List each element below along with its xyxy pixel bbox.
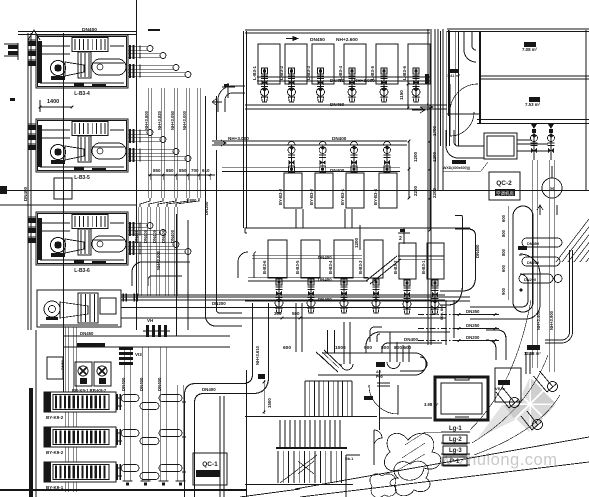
svg-text:L-B3-5: L-B3-5: [74, 175, 90, 181]
svg-text:DN450: DN450: [330, 78, 345, 83]
arrow right end of discharge pipe: [420, 104, 433, 110]
svg-text:L-B3-6: L-B3-6: [402, 66, 407, 80]
duct elbow to third row: [206, 310, 243, 326]
svg-text:DN200: DN200: [524, 277, 536, 282]
stair bottom line: [245, 484, 353, 486]
svg-text:NH+3.800: NH+3.800: [144, 110, 149, 130]
section line across plan: [0, 190, 589, 192]
svg-text:BY-K9-2: BY-K9-2: [46, 415, 64, 420]
chiller unit L-B3-5: [36, 119, 128, 172]
svg-text:600, 800: 600, 800: [439, 304, 444, 320]
section marker 2: [403, 228, 405, 244]
pump row enclosure right wall: [427, 29, 429, 345]
svg-text:800: 800: [501, 248, 506, 256]
duct damper dot: [258, 374, 265, 379]
wall to elevator: [379, 417, 432, 419]
outer dim col 1700 1200 2200: [429, 108, 431, 230]
pump BY-B3-3: [291, 145, 293, 173]
duct elbow turn left: [243, 374, 269, 394]
pump BY-B3-4: [386, 145, 388, 173]
right boundary diagonal hatch: [563, 232, 589, 259]
svg-text:NH+3.000: NH+3.000: [354, 78, 375, 83]
pump L-B3-6: [415, 68, 417, 102]
pump B-B3-4: [343, 279, 345, 313]
pump bay B-B3-5: [301, 240, 320, 278]
svg-text:DN450: DN450: [310, 37, 325, 43]
pump BY-B3-2: [322, 145, 324, 173]
pump row inlet elbow: [232, 86, 245, 93]
riser lower vertical pipes DN400: [138, 207, 140, 296]
svg-text:DN400: DN400: [330, 168, 345, 173]
chiller unit L-B3-6: [36, 212, 128, 265]
pump L-B3-5: [383, 68, 385, 102]
pipe pair left of stairs: [219, 396, 221, 497]
riser group top center x290-330: [295, 0, 297, 1]
plant bush lower-left: [384, 433, 440, 480]
room 7.53: [529, 97, 540, 102]
duct branch left at y268: [132, 262, 190, 286]
section line end mark: [0, 186, 7, 194]
diagonal bell stub right 3: [521, 411, 541, 430]
svg-text:1200: 1200: [354, 237, 359, 248]
VI3 valve cluster: [119, 347, 133, 350]
connector pipes right bottom: [446, 300, 454, 345]
pump row header pipe DN450 NH+2.600: [245, 29, 430, 31]
svg-text:DN400: DN400: [134, 229, 139, 243]
door S-arc lower: [374, 430, 382, 446]
svg-text:DN400: DN400: [170, 229, 175, 243]
elevator shaft walls: [435, 377, 488, 420]
svg-text:L-B3-6: L-B3-6: [74, 268, 90, 274]
AHU BY-K9-1 connection capsule pipes: [116, 467, 122, 469]
right dim line ticks: [408, 141, 410, 198]
bell mouth stub 1: [296, 303, 302, 352]
pump RB-K9-1: [75, 362, 92, 386]
svg-text:DN450: DN450: [80, 331, 94, 336]
vertical capsule pipe large: [513, 206, 533, 312]
connector pipes second row to third row: [295, 209, 297, 228]
inter-chiller connector box: [54, 178, 72, 199]
dim marks right pipes: [458, 313, 461, 316]
svg-text:DN200: DN200: [212, 301, 226, 306]
svg-text:Lg-2: Lg-2: [449, 437, 462, 443]
chiller 1 stub pipes to risers: [128, 46, 148, 48]
pipe after jog horizontal: [398, 255, 444, 257]
svg-text:DN400: DN400: [202, 387, 216, 392]
right bottom duct loop: [470, 254, 540, 319]
diagonal bell stub right 1: [534, 371, 557, 392]
horizontal capsule DN450: [522, 238, 562, 247]
pipe DN200 right: [418, 340, 455, 342]
pump bay BY-B3-3: [284, 173, 302, 208]
AHU riser end feet: [123, 480, 133, 482]
svg-text:Lg-1: Lg-1: [449, 426, 462, 432]
pump bay L-B3-3: [312, 44, 334, 84]
exchanger pipes right: [121, 294, 445, 296]
svg-text:NH+3.000: NH+3.000: [156, 250, 161, 270]
AHU riser DN400 3: [159, 347, 161, 481]
arrow at discharge: [412, 107, 425, 113]
pipe DN250: [418, 328, 455, 330]
third row mid pipe DN400: [248, 276, 368, 278]
svg-text:DN400: DN400: [318, 297, 332, 302]
air handling unit BY-K9-2: [44, 392, 116, 412]
grid line vertical x136: [136, 0, 138, 330]
feed pipe segments between AHUs: [65, 412, 67, 427]
svg-text:900: 900: [364, 345, 372, 351]
riser pipes NH labels: [148, 88, 150, 198]
svg-text:BY-B3-1: BY-B3-1: [340, 188, 345, 205]
far pipe elbow left: [545, 332, 573, 343]
svg-text:1500: 1500: [267, 398, 272, 408]
AHU riser DN400 2: [141, 347, 143, 481]
site boundary diagonal lower: [300, 462, 589, 497]
stair thick tread line: [276, 447, 347, 449]
svg-text:1200: 1200: [432, 151, 437, 162]
AHU BY-K9-2 connection capsule pipes: [116, 397, 122, 399]
stair upper flight treads: [304, 381, 306, 416]
svg-text:DN400: DN400: [152, 229, 157, 243]
counterweight mark: [455, 376, 469, 380]
svg-text:空调机房: 空调机房: [496, 190, 514, 197]
svg-text:850: 850: [153, 168, 161, 173]
pump B-B3-3: [375, 279, 377, 313]
stair middle flight treads: [279, 420, 281, 447]
duct horizontal segment DN400: [196, 383, 244, 385]
svg-text:DN400: DN400: [157, 377, 162, 391]
svg-text:DN250: DN250: [466, 323, 480, 328]
right duct from left elbow down: [455, 216, 476, 285]
svg-text:600: 600: [283, 345, 291, 351]
third row left elbow: [238, 252, 256, 278]
curved leader to pipes 1: [470, 300, 531, 430]
bottom duct DN400 horizontal: [380, 332, 450, 343]
pump BY-B3-1: [353, 145, 355, 173]
svg-text:800: 800: [501, 229, 506, 237]
duct descending NH+3.610: [253, 303, 269, 379]
curved leader to pipes 2: [472, 355, 548, 443]
AE P00 black marks: [376, 362, 385, 367]
svg-text:B-B3-5: B-B3-5: [295, 260, 300, 274]
top-left roof mark: [28, 30, 40, 40]
right duct elbows top: [464, 31, 476, 62]
pump L-B3-1: [264, 68, 266, 102]
svg-text:2: 2: [399, 236, 402, 242]
pump suction pipe DN450 NH+3.000: [257, 76, 430, 78]
svg-text:DN450M: DN450M: [80, 343, 95, 347]
svg-text:DN200: DN200: [466, 335, 480, 340]
pump bay B-B3-6: [268, 240, 287, 278]
QC-1 label box: [193, 453, 227, 485]
pump bay BY-B3-1: [346, 173, 364, 208]
curved leader to pipes 3: [474, 395, 560, 455]
plant bush small: [370, 474, 396, 497]
svg-text:VI3: VI3: [135, 352, 142, 357]
pump L-B3-4: [351, 68, 353, 102]
svg-text:7.53 m²: 7.53 m²: [525, 102, 541, 107]
second duct pair left of main duct: [177, 214, 189, 336]
third row upper pipe DN400: [252, 254, 362, 256]
pump bay B-B3-2: [399, 243, 416, 279]
diagonal pipe jog: [366, 256, 397, 281]
arrows on right pipes: [537, 205, 543, 215]
right duct elbow out left: [448, 271, 476, 292]
label WXD 400x600: [452, 160, 466, 164]
small room label 1.41: [449, 69, 459, 73]
right vertical pipe pair: [531, 160, 533, 368]
svg-text:300: 300: [274, 311, 282, 316]
vertical feed pipes to AHUs: [65, 327, 67, 392]
svg-text:Vfl m: Vfl m: [495, 386, 505, 391]
pump bay L-B3-1: [258, 44, 280, 84]
room label 13.58: [527, 345, 540, 350]
svg-text:1150: 1150: [399, 90, 404, 100]
svg-text:L-B3-2: L-B3-2: [279, 66, 284, 80]
left riser pipe DN400: [27, 33, 29, 330]
svg-text:QC-1: QC-1: [202, 461, 218, 468]
svg-text:700: 700: [191, 168, 199, 173]
pump RB-K9-2: [94, 362, 111, 386]
lower duct elbow down right: [486, 330, 506, 360]
chiller 3 stub pipes to risers: [128, 223, 148, 225]
right edge wall: [585, 30, 587, 190]
pump bay B-B3-4: [334, 240, 353, 278]
room2 bottom wall: [477, 119, 589, 121]
pump pair right top: [533, 130, 535, 160]
svg-text:800: 800: [381, 345, 389, 351]
svg-text:DN400: DN400: [475, 244, 480, 258]
feed pipe to bell stub 1: [525, 352, 527, 374]
pump bay B-B3-3: [364, 240, 383, 278]
svg-text:DN400: DN400: [404, 337, 419, 342]
stair lower flight treads: [277, 451, 279, 483]
svg-text:DN200: DN200: [204, 201, 209, 215]
bell mouth stub 2: [341, 322, 353, 370]
third row enclosure pipe: [245, 228, 470, 233]
stair cross mark: [298, 461, 314, 474]
svg-text:B-B3-4: B-B3-4: [328, 260, 333, 274]
ramp boundary: [556, 219, 589, 262]
svg-text:B-B3-2: B-B3-2: [393, 260, 398, 274]
wall segment below: [345, 455, 347, 497]
AHU riser DN400 1: [123, 347, 125, 481]
riser bend bundle to lower pipes: [140, 198, 150, 207]
air handling unit BY-K9-2: [44, 427, 116, 447]
pump bay L-B3-4: [344, 44, 366, 84]
bell stub in header 2: [403, 345, 409, 362]
svg-text:BY-K9-2: BY-K9-2: [46, 450, 64, 455]
room wall vertical x379: [379, 370, 381, 430]
room wall stub right: [377, 382, 390, 384]
svg-text:850: 850: [166, 168, 174, 173]
diagonal bell stub right 2: [496, 387, 518, 408]
svg-text:DN450: DN450: [527, 241, 539, 246]
QC-2 label box: [489, 172, 520, 200]
pump L-B3-2: [291, 68, 293, 102]
small room wall horizontal: [447, 113, 481, 115]
pipe DN450 below exchanger: [63, 335, 230, 337]
svg-text:L-B3-4: L-B3-4: [74, 91, 90, 97]
site boundary diagonal upper: [295, 437, 589, 489]
svg-text:DN400: DN400: [143, 229, 148, 243]
main duct riser down: [206, 140, 217, 316]
small room wall vertical: [448, 30, 450, 116]
svg-text:BY-B3-2: BY-B3-2: [309, 188, 314, 205]
svg-text:900: 900: [501, 287, 506, 295]
svg-text:VH: VH: [147, 318, 153, 323]
pipe DN350: [418, 314, 455, 316]
chiller 2 stub pipes to risers: [128, 130, 148, 132]
section marker 1: [227, 83, 229, 98]
svg-text:DN400: DN400: [161, 229, 166, 243]
svg-text:B-B3-1: B-B3-1: [421, 260, 426, 274]
svg-text:DN450: DN450: [330, 102, 345, 107]
svg-text:7.08 m²: 7.08 m²: [522, 47, 538, 52]
stair mid landing line: [245, 416, 377, 418]
svg-text:B-B3-6: B-B3-6: [262, 260, 267, 274]
svg-text:13.58 m²: 13.58 m²: [524, 351, 541, 356]
duct elbow turn down: [185, 384, 205, 404]
pump B-B3-5: [310, 279, 312, 313]
svg-text:NH+3.050: NH+3.050: [170, 110, 175, 130]
slanted supply duct hatched: [316, 350, 342, 372]
wall line y205 left: [0, 204, 137, 206]
right riser pipes top: [437, 31, 439, 146]
svg-text:QC-2: QC-2: [496, 180, 512, 187]
svg-text:3.98 m²: 3.98 m²: [424, 402, 439, 407]
left edge dark bar bottom: [29, 388, 33, 497]
bottom-left thick border line: [0, 489, 247, 491]
watermark zhulong logo: [478, 377, 556, 438]
svg-text:1400: 1400: [47, 99, 59, 105]
svg-text:L-B3-1: L-B3-1: [252, 66, 257, 80]
right vertical pipe pair far: [569, 250, 571, 332]
stair run diagonal: [280, 455, 317, 483]
svg-text:H: H: [550, 187, 554, 193]
right door arcs: [450, 84, 478, 112]
svg-text:L-B3-3: L-B3-3: [306, 66, 311, 80]
header feed elbow right: [370, 327, 382, 342]
third row lower pipe DN400: [245, 296, 470, 298]
svg-text:NH+3.610: NH+3.610: [255, 345, 260, 365]
plant bush lower-right: [390, 461, 430, 496]
pump bay BY-B3-4: [379, 173, 397, 208]
horizontal capsule DN250: [522, 257, 560, 266]
svg-text:600: 600: [501, 264, 506, 272]
door arc room 3.98: [369, 385, 398, 414]
top wall right: [447, 28, 589, 30]
small box left of pumps: [47, 357, 63, 379]
pump row enclosure left wall: [243, 31, 245, 228]
legend leader lines: [398, 432, 425, 470]
right header dark flange: [425, 74, 429, 84]
pump B-B3-1: [434, 280, 436, 314]
left edge section markers: [8, 45, 18, 49]
second row header pipe NH+3.000 DN400: [212, 140, 407, 142]
pump bay B-B3-1: [427, 243, 444, 279]
m2 black bits right of header: [518, 246, 527, 250]
grid line vertical x64: [63, 33, 65, 392]
diagonal ramp hatch parallel lines: [556, 219, 589, 262]
svg-text:600: 600: [501, 214, 506, 222]
svg-text:NH+2.600: NH+2.600: [336, 37, 358, 43]
flow meter circle: [542, 178, 562, 198]
bell stub in header 1: [387, 332, 400, 369]
plate heat exchanger box: [484, 133, 517, 159]
duct vertical to bottom: [185, 395, 195, 497]
pump B-B3-6: [278, 279, 280, 313]
svg-text:850: 850: [179, 168, 187, 173]
pump B-B3-2: [406, 280, 408, 314]
pipes exchanger to pumps: [517, 139, 531, 141]
svg-text:DN350: DN350: [466, 309, 480, 314]
svg-text:BY-B3-3: BY-B3-3: [278, 188, 283, 205]
svg-text:1700: 1700: [432, 125, 437, 136]
svg-text:WXD(400x600)(): WXD(400x600)(): [443, 166, 471, 170]
svg-text:NH+3.900: NH+3.900: [549, 310, 554, 330]
svg-text:1200: 1200: [413, 151, 418, 162]
three-line bundle crossing center: [121, 296, 446, 298]
pump discharge pipe DN450: [245, 104, 447, 106]
header feed pipe pair: [328, 330, 335, 353]
svg-text:Lg-3: Lg-3: [449, 448, 462, 454]
svg-text:2200: 2200: [432, 187, 437, 198]
duct elbow to exchanger box: [446, 130, 484, 158]
air handling unit BY-K9-1: [44, 462, 116, 482]
svg-text:3.800: 3.800: [186, 198, 197, 203]
machine room right wall: [479, 31, 481, 124]
room divider wall: [480, 75, 589, 77]
heat exchanger unit: [37, 290, 121, 327]
svg-text:DN400: DN400: [23, 186, 28, 201]
svg-text:BY-B3-4: BY-B3-4: [373, 188, 378, 205]
door black mark: [364, 396, 373, 400]
svg-text:B-B3-3: B-B3-3: [358, 260, 363, 274]
svg-text:DN400: DN400: [332, 136, 347, 141]
room 7.08: [524, 42, 536, 47]
pump bay L-B3-6: [408, 44, 430, 84]
svg-text:NH+3.820: NH+3.820: [157, 110, 162, 130]
AHU BY-K9-2 connection capsule pipes: [116, 432, 122, 434]
dimension 1200 third row: [359, 225, 361, 250]
svg-text:DN400: DN400: [82, 27, 97, 33]
pump bay L-B3-2: [285, 44, 307, 84]
svg-text:DN400: DN400: [139, 377, 144, 391]
pump bay BY-B3-2: [315, 173, 333, 208]
horizontal capsule DN200: [519, 274, 553, 283]
pump L-B3-3: [320, 68, 322, 102]
top-left pipe DN400: [18, 31, 136, 33]
main duct vertical from pump row: [205, 96, 207, 140]
stair left wall: [246, 370, 248, 497]
chiller unit L-B3-4: [36, 35, 128, 88]
svg-text:DN400: DN400: [121, 377, 126, 391]
elevator door: [452, 419, 472, 421]
small room Vfl: [495, 368, 521, 402]
second row pipe DN400 lower: [222, 167, 400, 169]
svg-text:NH+3.000: NH+3.000: [182, 110, 187, 130]
svg-text:2200: 2200: [413, 185, 418, 196]
pump bay L-B3-5: [376, 44, 398, 84]
AHU riser DN400 4: [176, 385, 178, 481]
svg-text:NH+3.000: NH+3.000: [228, 136, 249, 141]
header capsule outline: [318, 353, 427, 375]
